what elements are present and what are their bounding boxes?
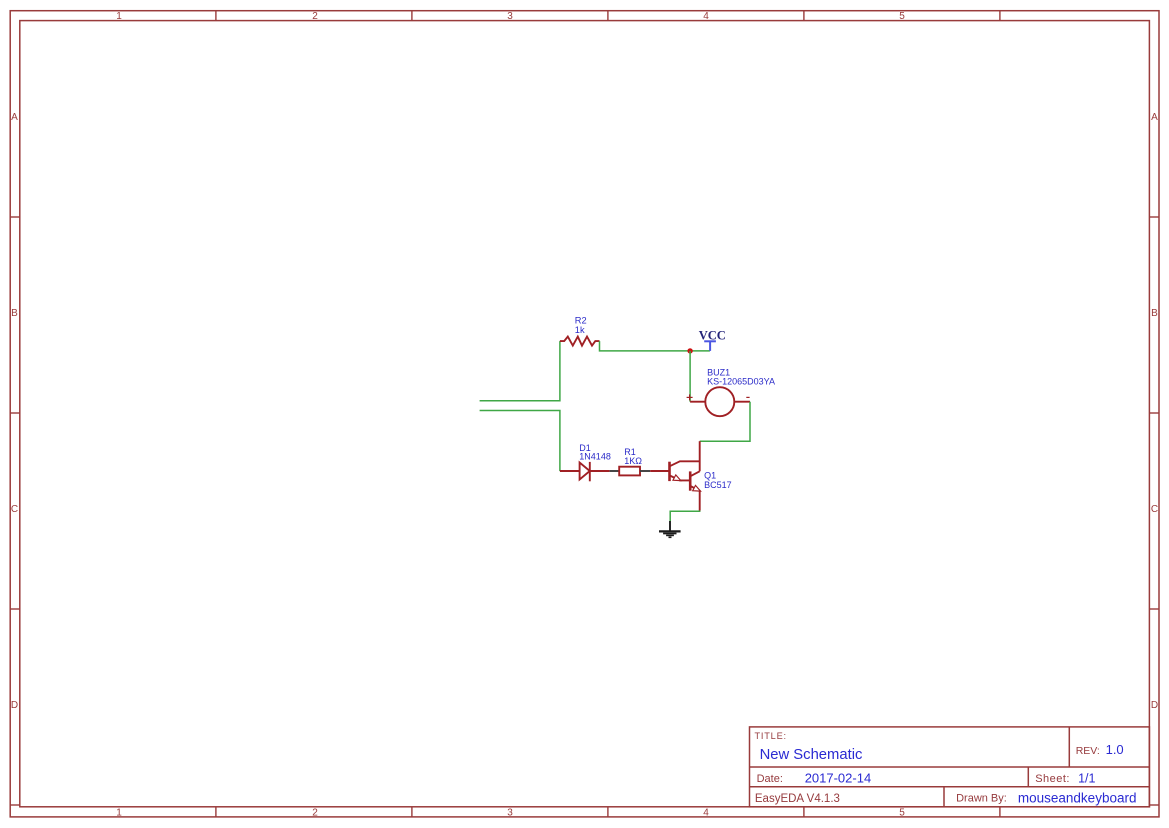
svg-text:1: 1 — [116, 807, 122, 818]
top ruler numbers — [116, 11, 905, 22]
VCC net flag — [704, 341, 716, 351]
svg-text:4: 4 — [703, 807, 709, 818]
svg-text:1/1: 1/1 — [1078, 772, 1095, 786]
svg-text:2: 2 — [312, 11, 318, 22]
svg-text:B: B — [1151, 308, 1158, 319]
svg-text:C: C — [11, 504, 18, 515]
wire net1 left upper stub — [480, 341, 560, 401]
svg-text:4: 4 — [703, 11, 709, 22]
svg-text:C: C — [1151, 504, 1158, 515]
svg-text:1k: 1k — [575, 325, 585, 335]
svg-text:1: 1 — [116, 11, 122, 22]
label R1 — [624, 447, 642, 466]
left ruler letters — [11, 112, 18, 711]
svg-text:New Schematic: New Schematic — [760, 747, 863, 763]
buzzer BUZ1 — [690, 387, 750, 416]
resistor R2 — [560, 337, 600, 346]
bottom ruler numbers — [116, 807, 905, 818]
svg-text:R2: R2 — [575, 315, 587, 325]
title block row divider 2 — [750, 786, 1150, 788]
left ruler ticks — [10, 217, 20, 805]
diode D1 — [560, 462, 610, 481]
svg-text:D: D — [11, 700, 18, 711]
svg-text:2017-02-14: 2017-02-14 — [805, 771, 872, 786]
title block rev divider — [1068, 727, 1070, 767]
resistor R1 — [610, 467, 651, 476]
svg-text:EasyEDA V4.1.3: EasyEDA V4.1.3 — [755, 793, 840, 805]
right ruler ticks — [1149, 217, 1159, 805]
svg-text:Sheet:: Sheet: — [1035, 773, 1070, 785]
svg-text:1.0: 1.0 — [1106, 742, 1124, 757]
svg-text:3: 3 — [507, 11, 513, 22]
wire R2 to VCC node — [600, 341, 710, 351]
svg-text:B: B — [11, 308, 18, 319]
wire emitter to ground — [670, 511, 700, 522]
svg-text:D: D — [1151, 700, 1158, 711]
title block row divider 1 — [750, 766, 1150, 768]
top ruler ticks — [216, 11, 1000, 21]
wire buzzer to collector — [700, 402, 750, 442]
junction dot — [687, 348, 692, 353]
svg-text:Q1: Q1 — [704, 470, 716, 480]
buzzer plus sign — [687, 394, 693, 400]
svg-text:A: A — [1151, 112, 1158, 123]
label Q1 — [704, 470, 732, 490]
label D1 — [579, 443, 611, 462]
svg-text:KS-12065D03YA: KS-12065D03YA — [707, 377, 775, 387]
svg-text:mouseandkeyboard: mouseandkeyboard — [1018, 790, 1137, 805]
title block border — [750, 727, 1150, 807]
svg-text:5: 5 — [899, 11, 905, 22]
svg-text:3: 3 — [507, 807, 513, 818]
svg-text:A: A — [11, 112, 18, 123]
bottom ruler ticks — [216, 807, 1000, 817]
svg-text:2: 2 — [312, 807, 318, 818]
label R2 value — [575, 315, 587, 335]
svg-text:VCC: VCC — [699, 329, 726, 343]
label BUZ1 — [707, 368, 775, 387]
buzzer minus sign — [746, 396, 749, 398]
title block sheet divider — [1027, 767, 1029, 787]
svg-text:REV:: REV: — [1076, 745, 1100, 757]
right ruler letters — [1151, 112, 1158, 711]
title block drawnby divider — [943, 787, 945, 807]
wire junction to buzzer plus — [689, 351, 691, 402]
wire net2 left lower stub — [480, 411, 560, 472]
svg-text:Drawn By:: Drawn By: — [956, 793, 1007, 805]
ground — [659, 521, 681, 537]
svg-text:1N4148: 1N4148 — [579, 451, 611, 461]
svg-text:Date:: Date: — [757, 773, 783, 785]
transistor Q1 — [650, 441, 700, 510]
svg-text:1KΩ: 1KΩ — [624, 456, 642, 466]
svg-text:BC517: BC517 — [704, 480, 732, 490]
svg-text:5: 5 — [899, 807, 905, 818]
svg-text:TITLE:: TITLE: — [755, 731, 787, 741]
